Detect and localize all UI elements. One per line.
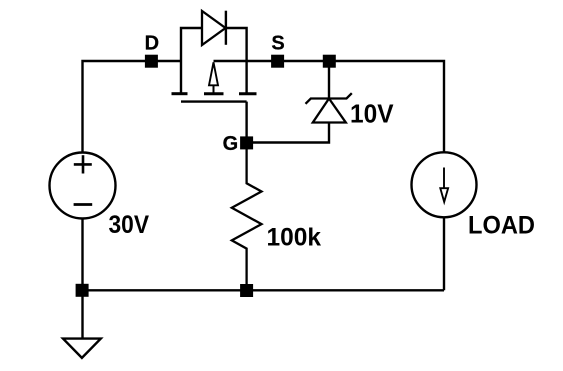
ground bbox=[63, 339, 101, 358]
svg-text:10V: 10V bbox=[350, 99, 394, 129]
svg-text:G: G bbox=[223, 133, 239, 155]
node S junction bbox=[271, 55, 284, 68]
node at zener cathode junction bbox=[323, 55, 336, 68]
wire top-left from V+ to drain bbox=[83, 61, 182, 153]
transistor M1 gate plate bbox=[181, 100, 247, 102]
wire zener anode to node G bbox=[247, 123, 329, 143]
zener diode 10V bbox=[306, 93, 352, 122]
wire gate to node G bbox=[245, 102, 247, 143]
wire top-right from source to load bbox=[214, 61, 445, 153]
node G junction bbox=[240, 136, 253, 149]
svg-text:30V: 30V bbox=[109, 211, 150, 239]
node D junction bbox=[145, 55, 158, 68]
node bottom-left junction bbox=[76, 284, 89, 297]
voltage source 30V bbox=[50, 153, 116, 219]
wire bottom rail bbox=[83, 289, 445, 291]
wire left lower vertical to ground bbox=[81, 219, 83, 339]
transistor M1 body-diode loop bbox=[181, 28, 247, 94]
transistor M1 bulk arrow bbox=[209, 62, 218, 93]
diode D1 body diode bbox=[202, 11, 226, 45]
resistor 100k bbox=[232, 143, 262, 290]
svg-text:100k: 100k bbox=[267, 224, 322, 252]
wire right lower vertical bbox=[443, 217, 445, 290]
node bottom-middle junction bbox=[240, 284, 253, 297]
wire source node to zener bbox=[328, 61, 330, 99]
svg-text:S: S bbox=[271, 32, 284, 54]
transistor M1 MOSFET channel bars bbox=[172, 92, 257, 95]
current source LOAD bbox=[412, 152, 477, 217]
svg-text:D: D bbox=[145, 32, 159, 54]
svg-text:LOAD: LOAD bbox=[468, 212, 535, 240]
